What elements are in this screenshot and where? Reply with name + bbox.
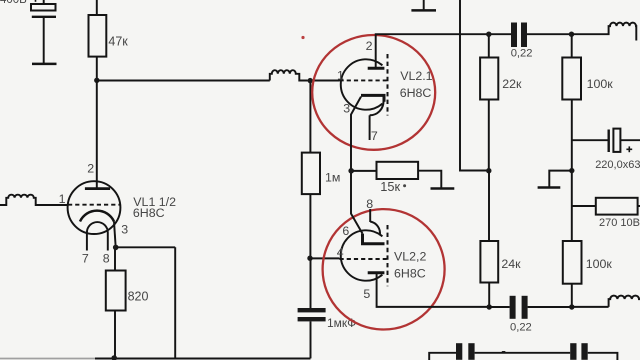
svg-text:24к: 24к <box>501 257 521 271</box>
wire node F to 22k <box>488 36 490 58</box>
VL2.1 pin3 lead <box>351 97 361 171</box>
svg-text:6Н8С: 6Н8С <box>133 206 165 220</box>
VL2.2 anode lead down right <box>377 273 489 307</box>
wire node D right <box>116 246 176 248</box>
wire 100k lower to node K <box>571 284 573 307</box>
svg-text:6Н8С: 6Н8С <box>400 86 432 100</box>
resistor R3 820 <box>106 271 126 311</box>
VL2.1 anode bar <box>368 67 385 70</box>
wire node B to VL2.1 grid <box>313 80 340 82</box>
svg-text:220,0х63: 220,0х63 <box>595 159 640 171</box>
wire feedback vertical x460 <box>460 0 489 171</box>
label plus C4 <box>626 146 632 152</box>
node A junction dot <box>94 78 99 83</box>
wire 24k to node H <box>488 283 490 308</box>
svg-text:2: 2 <box>366 39 373 53</box>
VL1 cathode arc <box>80 211 114 222</box>
svg-text:15к: 15к <box>380 179 400 194</box>
capacitor C6 plates <box>456 343 475 360</box>
svg-text:3: 3 <box>343 101 350 115</box>
wire B+ top to 47k <box>96 0 98 15</box>
svg-text:3: 3 <box>121 223 128 237</box>
capacitor C4 220,0x63 left plate <box>608 130 610 153</box>
capacitor C3 0,22 top plates <box>511 23 527 48</box>
wire node J to ground G4 <box>549 171 572 187</box>
tube VL1 envelope <box>68 181 121 234</box>
red speck <box>301 36 304 39</box>
label asterisk <box>403 184 406 187</box>
node F junction dot top <box>486 32 491 37</box>
wire node D to 820 <box>114 250 116 271</box>
VL1 cathode lead pin3 <box>114 222 116 248</box>
wire node E to 15k <box>353 170 377 172</box>
junction tick <box>502 351 506 354</box>
wire 22k to node G <box>488 100 490 171</box>
VL2.1 grid dashed <box>340 79 387 81</box>
wire 15k to ground stem <box>418 171 441 188</box>
svg-text:22к: 22к <box>502 77 522 91</box>
VL2.2 pin6 lead <box>351 173 363 234</box>
ground bar G2 <box>411 9 436 12</box>
node B junction dot <box>308 78 313 83</box>
red circle VL2.2 <box>323 209 445 329</box>
wire bottom right caps run <box>429 353 456 360</box>
ground rail bottom <box>95 358 311 360</box>
svg-text:1мкФ: 1мкФ <box>327 316 356 330</box>
svg-text:47к: 47к <box>108 34 128 48</box>
wire 1mkF to rail <box>310 321 312 358</box>
node H junction dot <box>487 304 492 309</box>
VL2.2 heater hook <box>370 222 380 236</box>
svg-text:1: 1 <box>337 68 344 82</box>
wire node A to grid coil <box>97 80 270 82</box>
resistor R1 47к <box>89 15 107 57</box>
resistor R2 1м <box>302 153 320 195</box>
inductor L4 top right <box>572 23 637 41</box>
svg-text:1м: 1м <box>325 171 340 185</box>
capacitor C4 right plate rect <box>613 129 620 152</box>
resistor R8 270 <box>596 198 638 215</box>
svg-text:0,22: 0,22 <box>511 47 533 59</box>
wire C6 to C7 <box>475 352 571 354</box>
svg-text:8: 8 <box>366 197 373 211</box>
VL1 heater arch <box>87 222 108 250</box>
capacitor C1 lower plate <box>32 16 56 18</box>
resistor R4 15к <box>377 162 419 179</box>
wire node I to 100k <box>571 36 573 58</box>
wire C7 right down <box>588 353 618 360</box>
red circle VL2.1 <box>312 35 435 150</box>
VL1 grid dashed <box>68 204 120 206</box>
VL1 anode bar <box>85 187 110 190</box>
VL2.2 pin8 lead <box>369 209 371 222</box>
svg-text:100к: 100к <box>587 77 614 91</box>
node G junction dot <box>486 168 491 173</box>
VL2.2 grid dashed <box>340 258 387 260</box>
node D junction dot cathode VL1 <box>113 245 119 251</box>
svg-text:7: 7 <box>371 129 378 143</box>
wire C5 to node K <box>528 306 572 308</box>
svg-text:100к: 100к <box>586 257 613 271</box>
wire C1 to ground <box>43 17 45 63</box>
svg-text:VL2,2: VL2,2 <box>394 249 426 263</box>
svg-text:820: 820 <box>128 290 149 304</box>
svg-text:7: 7 <box>82 251 89 265</box>
capacitor C7 plates <box>570 343 588 360</box>
wire 100k down through nodes <box>571 100 573 242</box>
ground G2 top stem <box>423 0 425 9</box>
capacitor C1 400В plate rect <box>31 0 56 11</box>
node I junction dot <box>569 32 574 37</box>
resistor R6 24к <box>480 241 498 283</box>
svg-text:5: 5 <box>363 287 370 301</box>
VL2.1 plate lead up and right <box>376 34 511 68</box>
wire node G to 24k <box>488 171 490 241</box>
label plus sign tip <box>35 0 37 2</box>
svg-text:6: 6 <box>342 224 349 238</box>
VL2.1 envelope dashed side <box>387 54 389 116</box>
wire node C to VL2.2 grid <box>310 257 340 259</box>
svg-text:2: 2 <box>87 162 94 176</box>
svg-text:0,22: 0,22 <box>510 322 532 334</box>
ground rail bottom faint <box>0 358 100 360</box>
capacitor C2 1мкФ plates <box>298 308 326 321</box>
capacitor C5 0,22 bottom plates <box>510 296 528 319</box>
wire C4 right <box>620 139 640 141</box>
wire node K to output coil <box>572 306 609 308</box>
inductor L3 output <box>609 296 640 307</box>
VL2.1 heater hook <box>370 102 384 116</box>
inductor L2 mid <box>270 70 308 80</box>
wire C3 to node I <box>527 33 572 35</box>
svg-text:4: 4 <box>337 245 344 259</box>
VL2.1 pin7 lead <box>369 115 371 140</box>
wire 1m to node C <box>309 194 311 258</box>
rail junction dot <box>111 355 117 360</box>
resistor R7 100к <box>562 58 581 100</box>
svg-text:VL2.1: VL2.1 <box>400 69 432 83</box>
wire corner down to rail <box>174 247 176 358</box>
wire elcap branch <box>572 139 609 141</box>
node C junction dot <box>307 256 312 261</box>
VL2.1 cathode bar <box>361 95 384 101</box>
ground bar G1 <box>32 63 57 66</box>
wire 820 to rail <box>114 311 116 359</box>
VL2.2 cathode bar <box>363 234 385 244</box>
ground bar G4 <box>538 186 561 189</box>
node E junction dot <box>348 168 354 174</box>
VL2.2 anode bar <box>368 271 385 274</box>
resistor R5 22к <box>480 58 498 100</box>
ground bar G3 <box>431 187 455 190</box>
wire 270 stub right <box>638 205 640 207</box>
node K junction dot <box>569 304 574 309</box>
svg-text:6Н8С: 6Н8С <box>394 266 426 280</box>
wire node H to C5 <box>489 306 509 308</box>
svg-text:400В: 400В <box>0 0 27 6</box>
tube VL2.1 envelope arc <box>341 59 383 109</box>
svg-text:8: 8 <box>103 251 110 265</box>
inductor L1 input with grid lead <box>0 195 68 205</box>
svg-text:1: 1 <box>59 192 66 206</box>
wire 47k bottom to node A <box>96 57 98 81</box>
tube VL2.2 envelope arc <box>341 230 383 280</box>
resistor R9 100к lower <box>563 241 582 284</box>
wire 270 branch <box>572 205 596 207</box>
wire node C to 1mkF <box>310 258 312 308</box>
wire node B down to 1m <box>309 83 311 153</box>
VL1 plate lead <box>96 81 98 189</box>
VL2.2 envelope dashed side <box>387 225 389 286</box>
svg-text:270 10Вт: 270 10Вт <box>599 217 640 229</box>
node J junction dot <box>569 168 574 173</box>
